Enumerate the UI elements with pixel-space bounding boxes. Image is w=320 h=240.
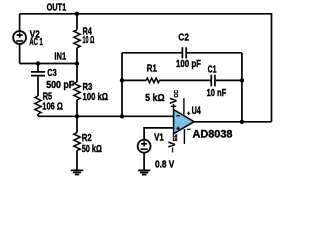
op-amp supply pin -Vs — [183, 129, 185, 144]
wire V2 bottom lead — [19, 45, 21, 64]
op-amp U4 triangle — [174, 110, 195, 134]
capacitor C3 plates — [31, 72, 45, 76]
wire V1 bottom lead — [143, 153, 145, 170]
resistor R1 zigzag — [146, 78, 159, 83]
svg-text:0.8 V: 0.8 V — [155, 160, 175, 171]
ground under R2 — [71, 170, 83, 174]
svg-text:5 kΩ: 5 kΩ — [145, 93, 165, 104]
svg-text:106 Ω: 106 Ω — [42, 101, 63, 112]
V1 plus mark — [141, 141, 147, 146]
svg-text:500 pF: 500 pF — [46, 80, 74, 91]
svg-text:IN1: IN1 — [54, 51, 66, 62]
wire box left vertical — [121, 53, 123, 117]
junction node IN1/R4/R3 — [75, 61, 79, 65]
capacitor C1 plates — [211, 75, 215, 87]
wire R3 leads — [76, 64, 78, 117]
svg-text:100 pF: 100 pF — [176, 59, 201, 70]
resistor R4 zigzag — [74, 30, 80, 48]
svg-text:AD8038: AD8038 — [193, 129, 233, 141]
supply plus mark — [187, 112, 190, 115]
voltage source V2 circle — [13, 31, 26, 44]
wire main rail to inverting input — [38, 115, 174, 117]
V2 plus mark — [17, 32, 23, 37]
wire box right vertical — [241, 53, 243, 122]
ground under V1 — [138, 170, 150, 174]
wire R2 leads — [76, 116, 78, 170]
svg-text:V1: V1 — [154, 133, 164, 144]
junction node box-right/C1 — [240, 78, 244, 82]
resistor R3 zigzag — [74, 82, 80, 100]
wire non-inverting input from V1 — [144, 128, 174, 139]
svg-text:R2: R2 — [82, 133, 92, 144]
wire R4 branch leads — [76, 14, 78, 64]
wire V2 top lead — [19, 14, 21, 31]
svg-text:10 Ω: 10 Ω — [83, 35, 95, 46]
svg-text:50 kΩ: 50 kΩ — [82, 144, 102, 155]
V2 minus mark — [16, 40, 23, 42]
svg-text:R1: R1 — [147, 64, 157, 75]
supply minus mark — [187, 128, 190, 130]
junction node box-left/R1 — [120, 78, 124, 82]
svg-text:C2: C2 — [178, 33, 189, 44]
junction node IN1/C3 — [36, 61, 40, 65]
junction node box-left/rail — [120, 114, 124, 118]
wire op-amp output row — [194, 121, 271, 123]
wire top rail OUT1 and right rail — [20, 14, 272, 122]
svg-text:100 kΩ: 100 kΩ — [83, 92, 109, 103]
junction node OUT1/R4 — [75, 12, 79, 16]
svg-text:U4: U4 — [192, 105, 201, 117]
op-amp inverting input minus mark — [176, 115, 179, 117]
voltage source V1 circle — [138, 140, 151, 153]
wire R1 C1 row — [122, 79, 242, 81]
resistor R2 zigzag — [74, 133, 80, 151]
V1 minus mark — [141, 148, 148, 150]
op-amp non-inverting input plus mark — [176, 127, 179, 130]
junction node summing rail/R3/R2 — [75, 114, 79, 118]
wire IN1 rail — [20, 63, 77, 65]
op-amp supply pin +Vs — [183, 98, 185, 114]
resistor R5 zigzag — [35, 96, 41, 114]
capacitor C2 plates — [182, 47, 186, 58]
svg-text:OUT1: OUT1 — [47, 2, 67, 13]
svg-text:10 nF: 10 nF — [207, 88, 227, 99]
wire C3 branch leads — [37, 64, 39, 117]
svg-text:C1: C1 — [208, 65, 217, 76]
svg-text:AC 1: AC 1 — [29, 37, 43, 48]
wire C2 row — [122, 52, 242, 54]
svg-text:C3: C3 — [47, 68, 57, 79]
junction node box-right/output — [240, 120, 244, 124]
